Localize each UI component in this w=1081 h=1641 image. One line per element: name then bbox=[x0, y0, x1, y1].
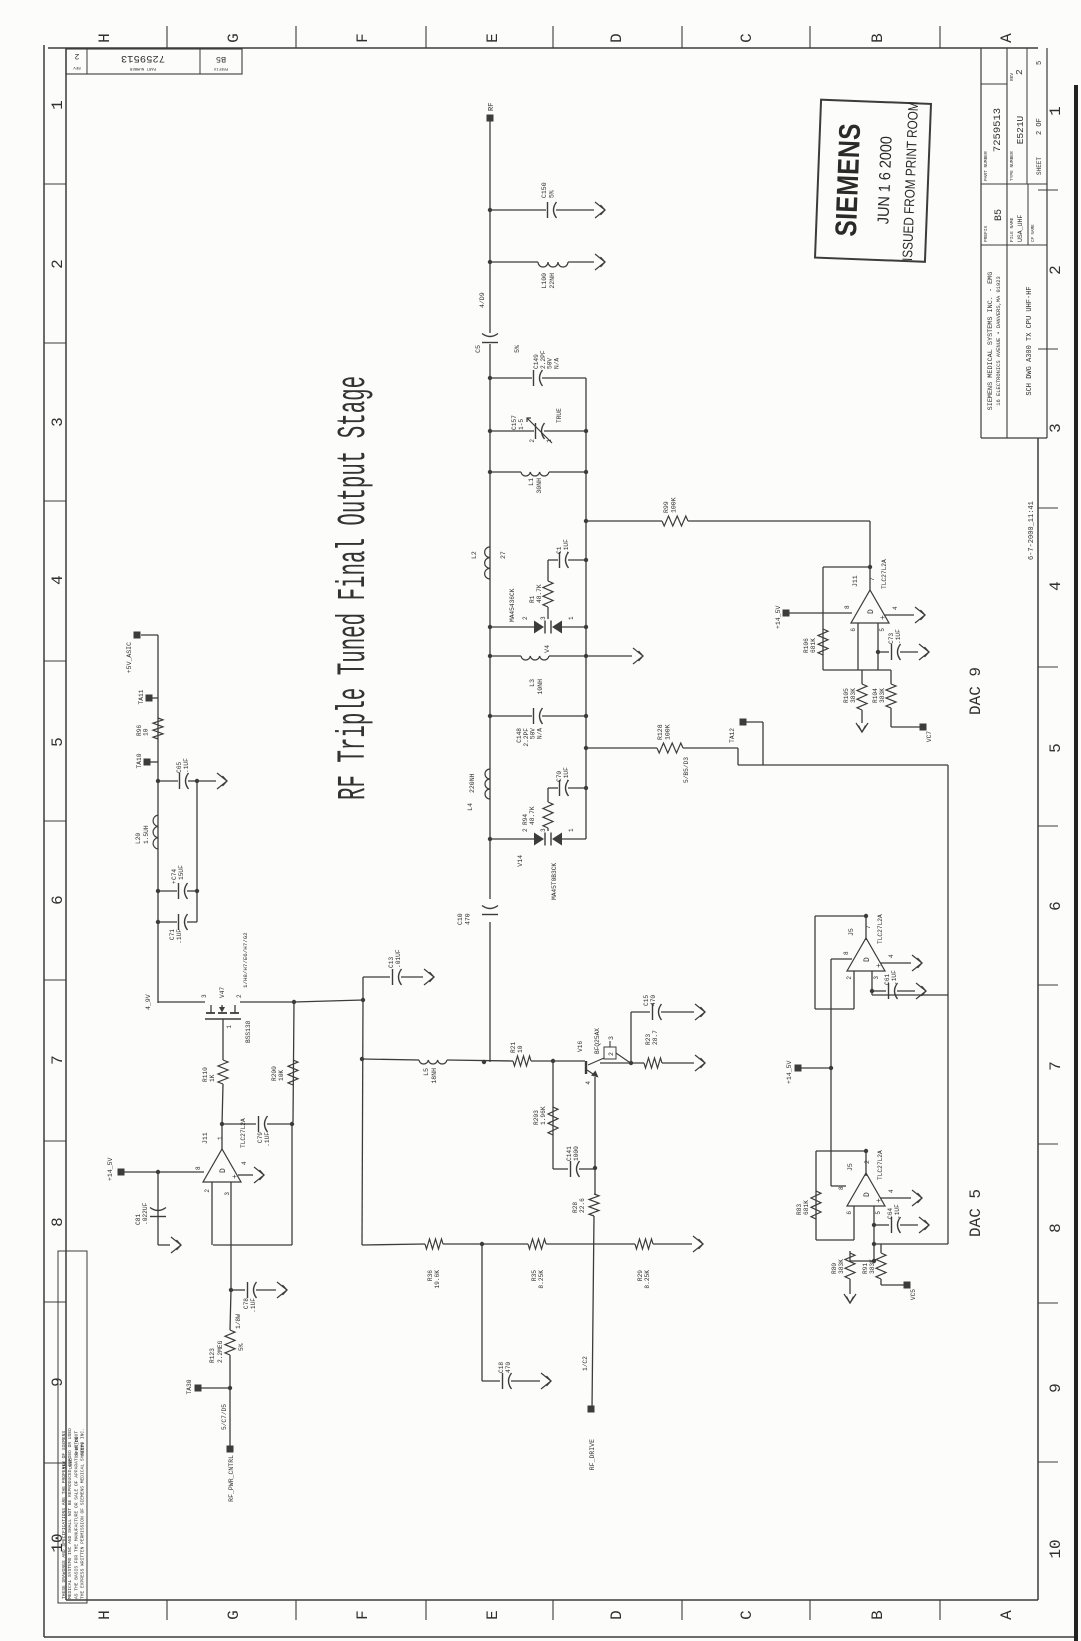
svg-text:D: D bbox=[863, 957, 872, 962]
svg-text:XFER_DB: XFER_DB bbox=[74, 1436, 80, 1456]
svg-text:SIEMENS: SIEMENS bbox=[829, 122, 867, 237]
svg-text:2: 2 bbox=[204, 1189, 211, 1193]
svg-text:CP NAME: CP NAME bbox=[1032, 224, 1036, 242]
svg-text:B: B bbox=[869, 33, 887, 43]
svg-text:48.7K: 48.7K bbox=[529, 806, 536, 825]
svg-text:G: G bbox=[225, 33, 243, 43]
svg-text:19.6K: 19.6K bbox=[434, 1270, 441, 1289]
svg-text:PREFIX: PREFIX bbox=[213, 66, 228, 70]
svg-text:2: 2 bbox=[608, 1052, 615, 1056]
svg-text:C5: C5 bbox=[475, 345, 482, 353]
svg-text:4: 4 bbox=[1047, 581, 1065, 591]
svg-text:V4: V4 bbox=[544, 645, 551, 653]
svg-text:48.7K: 48.7K bbox=[536, 584, 543, 603]
svg-text:R83: R83 bbox=[796, 1204, 803, 1215]
svg-text:D: D bbox=[867, 609, 876, 614]
svg-text:2: 2 bbox=[49, 259, 67, 269]
svg-text:8.25K: 8.25K bbox=[644, 1270, 651, 1289]
svg-text:R110: R110 bbox=[202, 1067, 209, 1082]
svg-text:.1UF: .1UF bbox=[176, 929, 183, 944]
svg-text:SHEET: SHEET bbox=[1036, 157, 1043, 175]
svg-text:220NH: 220NH bbox=[469, 773, 476, 793]
svg-text:BFQ25AX: BFQ25AX bbox=[594, 1028, 601, 1054]
svg-text:RF_DRIVE: RF_DRIVE bbox=[589, 1439, 596, 1470]
svg-text:USED: USED bbox=[68, 1458, 74, 1469]
svg-text:5: 5 bbox=[1047, 743, 1065, 753]
svg-text:8: 8 bbox=[843, 951, 850, 955]
svg-text:1/H8/H7/E6/H7/G2: 1/H8/H7/E6/H7/G2 bbox=[242, 932, 249, 988]
svg-text:L2: L2 bbox=[471, 551, 478, 559]
svg-text:383K: 383K bbox=[879, 688, 886, 703]
svg-text:+14_5V: +14_5V bbox=[775, 605, 782, 629]
svg-text:C: C bbox=[738, 33, 756, 43]
svg-text:27: 27 bbox=[500, 551, 507, 559]
svg-text:383K: 383K bbox=[869, 1259, 876, 1274]
svg-text:7: 7 bbox=[49, 1055, 67, 1065]
svg-text:+: + bbox=[879, 615, 888, 620]
svg-text:10: 10 bbox=[1047, 1539, 1065, 1558]
svg-text:C141: C141 bbox=[566, 1146, 573, 1161]
svg-text:V14: V14 bbox=[517, 855, 524, 867]
svg-text:383K: 383K bbox=[838, 1259, 845, 1274]
svg-text:R128: R128 bbox=[657, 724, 664, 740]
svg-text:USA_UHF: USA_UHF bbox=[1017, 215, 1024, 242]
svg-text:VC7: VC7 bbox=[926, 731, 933, 742]
svg-text:JUN 1 6 2000: JUN 1 6 2000 bbox=[875, 136, 896, 225]
svg-text:2: 2 bbox=[1014, 69, 1025, 75]
svg-text:4: 4 bbox=[241, 1161, 248, 1165]
svg-text:D: D bbox=[608, 1610, 626, 1620]
svg-text:4: 4 bbox=[49, 575, 67, 585]
svg-text:18NH: 18NH bbox=[431, 1068, 438, 1084]
svg-text:1: 1 bbox=[568, 616, 575, 620]
svg-text:470: 470 bbox=[505, 1362, 512, 1373]
svg-text:R1: R1 bbox=[529, 595, 536, 603]
svg-text:3: 3 bbox=[224, 1192, 231, 1196]
svg-text:2: 2 bbox=[236, 994, 243, 998]
svg-text:DAC 5: DAC 5 bbox=[967, 1189, 985, 1237]
svg-text:R104: R104 bbox=[872, 688, 879, 703]
svg-text:1-5: 1-5 bbox=[518, 419, 525, 430]
svg-text:1: 1 bbox=[546, 439, 553, 443]
svg-text:R91: R91 bbox=[862, 1263, 869, 1274]
svg-text:1.96K: 1.96K bbox=[540, 1106, 547, 1125]
svg-text:D: D bbox=[219, 1168, 228, 1173]
svg-text:1/8W: 1/8W bbox=[235, 1314, 242, 1329]
svg-text:3: 3 bbox=[540, 616, 547, 620]
svg-text:15UF: 15UF bbox=[178, 865, 185, 880]
svg-text:PREFIX: PREFIX bbox=[983, 225, 989, 242]
svg-text:470: 470 bbox=[650, 995, 657, 1006]
svg-text:1000: 1000 bbox=[573, 1146, 580, 1161]
svg-text:2: 2 bbox=[529, 439, 536, 443]
svg-text:8: 8 bbox=[49, 1217, 67, 1227]
svg-text:F: F bbox=[354, 33, 372, 43]
svg-text:N/A: N/A bbox=[536, 728, 543, 739]
svg-text:MA45436CK: MA45436CK bbox=[509, 588, 516, 622]
svg-text:TLC27L2A: TLC27L2A bbox=[877, 1150, 884, 1180]
svg-text:.022UF: .022UF bbox=[142, 1202, 149, 1225]
svg-text:5%: 5% bbox=[514, 345, 521, 353]
svg-text:8: 8 bbox=[1047, 1223, 1065, 1233]
svg-text:.1UF: .1UF bbox=[895, 629, 902, 644]
svg-text:22NH: 22NH bbox=[549, 273, 556, 289]
svg-text:G: G bbox=[225, 1610, 243, 1620]
svg-text:C10: C10 bbox=[457, 913, 464, 925]
svg-text:10: 10 bbox=[143, 728, 150, 736]
svg-text:A: A bbox=[998, 1610, 1016, 1620]
svg-text:+: + bbox=[875, 963, 884, 968]
svg-text:D: D bbox=[863, 1192, 872, 1197]
svg-text:TA11: TA11 bbox=[138, 689, 145, 704]
svg-text:RF Triple Tuned Final Output S: RF Triple Tuned Final Output Stage bbox=[330, 376, 376, 800]
svg-text:PART NUMBER: PART NUMBER bbox=[983, 151, 989, 181]
svg-text:1.5UH: 1.5UH bbox=[143, 825, 150, 844]
svg-text:2: 2 bbox=[522, 616, 529, 620]
svg-text:THE: THE bbox=[62, 1460, 68, 1469]
svg-text:10K: 10K bbox=[278, 1070, 285, 1081]
svg-text:+: + bbox=[875, 1198, 884, 1203]
svg-text:C79: C79 bbox=[257, 1132, 264, 1143]
svg-text:4: 4 bbox=[585, 1081, 592, 1085]
svg-text:REV: REV bbox=[73, 65, 81, 69]
svg-text:TYPE NUMBER: TYPE NUMBER bbox=[1009, 151, 1015, 181]
svg-text:J5: J5 bbox=[847, 1163, 854, 1171]
svg-text:TA10: TA10 bbox=[136, 753, 143, 768]
svg-text:5: 5 bbox=[49, 737, 67, 747]
svg-text:30NH: 30NH bbox=[536, 478, 543, 494]
svg-text:28.7: 28.7 bbox=[652, 1030, 659, 1045]
svg-text:681K: 681K bbox=[810, 638, 817, 653]
svg-text:4: 4 bbox=[888, 1189, 895, 1193]
svg-text:5%: 5% bbox=[238, 1343, 245, 1351]
svg-text:1: 1 bbox=[568, 828, 575, 832]
svg-text:2: 2 bbox=[74, 51, 79, 60]
svg-text:C64: C64 bbox=[887, 1208, 894, 1219]
svg-text:.01UF: .01UF bbox=[395, 949, 402, 968]
svg-text:V47: V47 bbox=[219, 987, 226, 998]
svg-text:R28: R28 bbox=[572, 1202, 579, 1213]
svg-text:100K: 100K bbox=[671, 497, 678, 513]
svg-text:H: H bbox=[96, 1610, 114, 1620]
svg-text:B5: B5 bbox=[216, 54, 226, 64]
svg-text:H: H bbox=[96, 33, 114, 43]
svg-text:B: B bbox=[869, 1610, 887, 1620]
svg-text:R203: R203 bbox=[533, 1110, 540, 1125]
svg-text:L1: L1 bbox=[528, 478, 535, 486]
svg-text:8: 8 bbox=[195, 1166, 202, 1170]
svg-text:3: 3 bbox=[201, 994, 208, 998]
svg-text:.1UF: .1UF bbox=[563, 767, 570, 782]
svg-text:BSS138: BSS138 bbox=[245, 1020, 252, 1043]
svg-text:4: 4 bbox=[888, 954, 895, 958]
svg-text:SIEMENS MEDICAL SYSTEMS INC. -: SIEMENS MEDICAL SYSTEMS INC. - EMG bbox=[987, 272, 995, 411]
svg-text:C1: C1 bbox=[556, 546, 563, 554]
svg-text:.1UF: .1UF bbox=[891, 970, 898, 985]
svg-text:J11: J11 bbox=[202, 1132, 209, 1144]
svg-text:PERTY: PERTY bbox=[80, 1442, 86, 1456]
svg-text:C65: C65 bbox=[176, 762, 183, 773]
svg-text:+5V_ASIC: +5V_ASIC bbox=[126, 642, 133, 673]
svg-text:C: C bbox=[738, 1610, 756, 1620]
svg-text:R106: R106 bbox=[803, 638, 810, 653]
svg-text:J5: J5 bbox=[848, 928, 855, 936]
svg-text:3: 3 bbox=[608, 1036, 615, 1040]
svg-text:F: F bbox=[354, 1610, 372, 1620]
svg-text:R123: R123 bbox=[209, 1348, 216, 1363]
svg-text:MEDICAL SYSTEMS INC AND SHALL: MEDICAL SYSTEMS INC AND SHALL NOT BE REP… bbox=[67, 1428, 73, 1599]
svg-text:100K: 100K bbox=[665, 724, 672, 740]
svg-text:THESE DRAWINGS AND SPECIFICATI: THESE DRAWINGS AND SPECIFICATIONS ARE TH… bbox=[61, 1431, 67, 1599]
svg-text:R99: R99 bbox=[663, 501, 670, 513]
svg-text:22.6: 22.6 bbox=[579, 1198, 586, 1213]
svg-text:L3: L3 bbox=[529, 679, 536, 687]
svg-text:MA45T0B3CK: MA45T0B3CK bbox=[551, 863, 558, 900]
svg-text:TLC27L2A: TLC27L2A bbox=[881, 559, 888, 589]
svg-text:4/D9: 4/D9 bbox=[479, 292, 486, 308]
svg-text:6: 6 bbox=[49, 895, 67, 905]
svg-text:6: 6 bbox=[846, 1211, 853, 1215]
svg-text:10: 10 bbox=[517, 1045, 524, 1053]
svg-text:6: 6 bbox=[1047, 901, 1065, 911]
svg-text:3: 3 bbox=[873, 976, 880, 980]
svg-text:3: 3 bbox=[1047, 423, 1065, 433]
svg-text:DAC 9: DAC 9 bbox=[967, 667, 985, 715]
svg-text:C150: C150 bbox=[541, 182, 548, 198]
svg-text:5/B5/D3: 5/B5/D3 bbox=[683, 757, 690, 783]
svg-text:VC5: VC5 bbox=[910, 1289, 917, 1300]
svg-text:1K: 1K bbox=[209, 1074, 216, 1082]
svg-text:E521U: E521U bbox=[1015, 115, 1026, 144]
svg-text:8.25K: 8.25K bbox=[538, 1270, 545, 1289]
svg-text:8: 8 bbox=[844, 605, 851, 609]
svg-text:L20: L20 bbox=[135, 833, 142, 844]
svg-text:681K: 681K bbox=[803, 1200, 810, 1215]
svg-text:+14_5V: +14_5V bbox=[107, 1157, 114, 1181]
svg-text:.1UF: .1UF bbox=[563, 539, 570, 554]
svg-text:L5: L5 bbox=[423, 1068, 430, 1076]
svg-text:B5: B5 bbox=[994, 209, 1005, 221]
svg-text:SCH DWG A300 TX CPU UHF-HF: SCH DWG A300 TX CPU UHF-HF bbox=[1026, 286, 1034, 395]
svg-text:TLC27L2A: TLC27L2A bbox=[877, 914, 884, 944]
svg-text:.1UF: .1UF bbox=[894, 1204, 901, 1219]
svg-text:RF_PWR_CNTRL: RF_PWR_CNTRL bbox=[228, 1455, 235, 1502]
svg-text:4: 4 bbox=[892, 606, 899, 610]
svg-text:R36: R36 bbox=[427, 1270, 434, 1281]
svg-text:D: D bbox=[608, 33, 626, 43]
svg-text:J11: J11 bbox=[852, 575, 859, 587]
svg-text:2: 2 bbox=[846, 976, 853, 980]
svg-text:.1UF: .1UF bbox=[250, 1298, 257, 1313]
svg-text:5%: 5% bbox=[549, 190, 556, 198]
svg-text:5/C7/D5: 5/C7/D5 bbox=[221, 1404, 228, 1430]
svg-text:N/A: N/A bbox=[553, 358, 560, 369]
svg-text:2: 2 bbox=[1047, 265, 1065, 275]
svg-text:A: A bbox=[998, 33, 1016, 43]
svg-text:R80: R80 bbox=[831, 1263, 838, 1274]
svg-text:.1UF: .1UF bbox=[264, 1132, 271, 1147]
svg-text:5: 5 bbox=[875, 1211, 882, 1215]
svg-text:C78: C78 bbox=[243, 1298, 250, 1309]
svg-text:C71: C71 bbox=[169, 929, 176, 940]
svg-text:6-7-2000_11:41: 6-7-2000_11:41 bbox=[1028, 501, 1036, 560]
svg-text:2.2MEG: 2.2MEG bbox=[217, 1340, 224, 1363]
svg-text:8: 8 bbox=[838, 1186, 845, 1190]
svg-text:R35: R35 bbox=[531, 1270, 538, 1281]
svg-text:C18: C18 bbox=[498, 1362, 505, 1373]
svg-text:2: 2 bbox=[522, 828, 529, 832]
svg-text:FILE NAME: FILE NAME bbox=[1009, 217, 1015, 242]
svg-text:1: 1 bbox=[217, 1136, 224, 1140]
svg-text:E: E bbox=[484, 1610, 502, 1620]
svg-text:1: 1 bbox=[49, 100, 67, 110]
svg-text:1/C2: 1/C2 bbox=[582, 1356, 589, 1371]
svg-text:R105: R105 bbox=[843, 688, 850, 703]
svg-text:TRUE: TRUE bbox=[556, 408, 563, 423]
svg-text:.1UF: .1UF bbox=[183, 758, 190, 773]
svg-text:1: 1 bbox=[1047, 106, 1065, 116]
svg-text:L100: L100 bbox=[541, 273, 548, 289]
svg-text:C74: C74 bbox=[171, 869, 178, 880]
svg-text:TA30: TA30 bbox=[186, 1379, 193, 1394]
svg-text:10NH: 10NH bbox=[537, 679, 544, 695]
svg-text:C15: C15 bbox=[643, 995, 650, 1006]
svg-text:E: E bbox=[484, 33, 502, 43]
svg-text:3: 3 bbox=[49, 417, 67, 427]
svg-text:R29: R29 bbox=[637, 1270, 644, 1281]
svg-text:R200: R200 bbox=[271, 1066, 278, 1081]
svg-text:9: 9 bbox=[1047, 1383, 1065, 1393]
svg-text:7259513: 7259513 bbox=[992, 108, 1004, 152]
svg-text:470: 470 bbox=[465, 913, 472, 925]
svg-text:C81: C81 bbox=[135, 1214, 142, 1225]
svg-text:383K: 383K bbox=[850, 688, 857, 703]
svg-text:L4: L4 bbox=[467, 803, 474, 811]
svg-text:V16: V16 bbox=[577, 1041, 584, 1052]
svg-text:TA12: TA12 bbox=[729, 728, 736, 743]
svg-text:2: 2 bbox=[864, 1160, 871, 1164]
svg-text:16 ELECTRONICS AVENUE • DANVER: 16 ELECTRONICS AVENUE • DANVERS,MA 01923 bbox=[996, 276, 1002, 405]
svg-text:C157: C157 bbox=[511, 415, 518, 430]
svg-text:C61: C61 bbox=[884, 974, 891, 985]
svg-text:5: 5 bbox=[1036, 61, 1044, 65]
svg-text:R21: R21 bbox=[510, 1042, 517, 1053]
svg-text:C13: C13 bbox=[388, 957, 395, 968]
svg-text:7259513: 7259513 bbox=[121, 52, 165, 64]
svg-text:RF: RF bbox=[488, 103, 496, 111]
svg-text:4_9V: 4_9V bbox=[145, 994, 152, 1010]
svg-text:TLC27L2A: TLC27L2A bbox=[240, 1118, 247, 1148]
svg-text:2 OF: 2 OF bbox=[1036, 118, 1044, 135]
svg-text:7: 7 bbox=[1047, 1061, 1065, 1071]
svg-text:1: 1 bbox=[226, 1025, 233, 1029]
svg-text:C70: C70 bbox=[556, 771, 563, 782]
svg-text:+14_5V: +14_5V bbox=[786, 1060, 793, 1084]
svg-text:3: 3 bbox=[540, 828, 547, 832]
svg-text:5: 5 bbox=[879, 628, 886, 632]
svg-text:R23: R23 bbox=[645, 1034, 652, 1045]
svg-text:PART NUMBER: PART NUMBER bbox=[129, 66, 156, 70]
svg-text:C73: C73 bbox=[888, 633, 895, 644]
svg-text:R94: R94 bbox=[522, 814, 529, 825]
svg-text:6: 6 bbox=[850, 628, 857, 632]
